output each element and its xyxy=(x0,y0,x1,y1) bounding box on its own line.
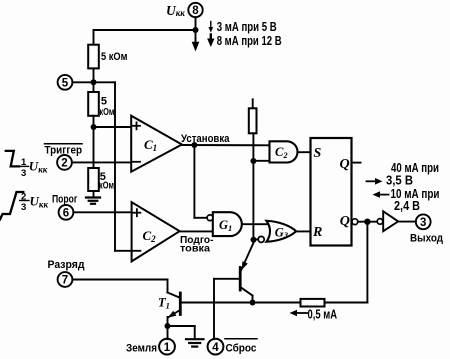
pin 7 discharge terminal xyxy=(58,272,73,287)
transistor T2 reset PNP xyxy=(240,243,253,303)
node T1 emitter junction xyxy=(165,323,171,329)
wire 2/3 reference vertical xyxy=(114,82,116,251)
value label 5 kOhm R3 xyxy=(99,171,114,192)
pin 5 control voltage terminal xyxy=(58,75,73,90)
svg-text:Земля: Земля xyxy=(126,342,157,354)
node Ustanovka junction xyxy=(191,142,197,148)
node Vcc junction xyxy=(193,27,199,33)
wire pin6 to C2 plus input xyxy=(73,211,131,213)
pin 2 trigger terminal xyxy=(57,155,72,170)
resistor R4 pull-up xyxy=(249,99,257,133)
wire G1 output to G3 input xyxy=(242,223,269,225)
op-amp comparator C2 xyxy=(132,202,180,261)
wire into G1 bubble xyxy=(194,217,207,219)
resistor R1 5 kOhm xyxy=(88,45,99,69)
svg-text:3,5 В: 3,5 В xyxy=(386,173,413,187)
pin 6 threshold terminal xyxy=(59,205,74,220)
wire pin5 to node A and on to C2 ref branch xyxy=(72,81,115,83)
svg-text:2: 2 xyxy=(61,158,67,170)
svg-text:4: 4 xyxy=(212,342,219,354)
wire to resistor R5 xyxy=(325,302,368,304)
svg-text:6: 6 xyxy=(63,208,69,220)
wire pin2 to C1 minus input xyxy=(72,161,131,163)
resistor R3 5 kOhm xyxy=(88,168,99,191)
wire emitter junction to ground xyxy=(168,326,195,339)
node at G3 lower input xyxy=(251,237,257,243)
svg-text:5 кОм: 5 кОм xyxy=(101,51,128,63)
svg-text:кОм: кОм xyxy=(99,106,114,118)
wire T2 base to pin 4 xyxy=(214,279,240,339)
transistor T1 discharge NPN xyxy=(168,293,181,339)
label Podgotovka xyxy=(180,234,214,255)
supply current annotation arrows xyxy=(207,22,214,48)
flip-flop U1 xyxy=(311,138,352,246)
label 1/3 Ukk xyxy=(20,157,48,179)
svg-text:8: 8 xyxy=(192,5,199,17)
op-amp comparator C1 xyxy=(131,116,182,172)
waveform glyph 2/3 rising edge xyxy=(0,192,23,220)
wire Q-bar branch down to base resistor xyxy=(366,222,368,303)
label Trigger overlined xyxy=(45,144,83,157)
wire node B to C1 plus input xyxy=(94,126,132,128)
svg-text:1: 1 xyxy=(164,342,171,354)
wire gate C2 lower input xyxy=(253,160,269,162)
svg-text:Сброс: Сброс xyxy=(226,342,257,354)
svg-text:2,4 В: 2,4 В xyxy=(394,199,420,213)
node at gate C2 lower input xyxy=(250,158,256,164)
gate C2 AND before S input xyxy=(270,141,298,162)
wire Q output stub xyxy=(352,162,361,164)
wire gate C2 output to S xyxy=(298,151,311,153)
svg-text:Порог: Порог xyxy=(52,194,78,206)
svg-text:кОм: кОм xyxy=(99,179,114,191)
svg-text:Выход: Выход xyxy=(410,232,443,244)
wire into G3 bubble xyxy=(254,238,259,240)
label 2/3 Ukk xyxy=(20,191,49,213)
label 40 mA at 3.5 V xyxy=(367,161,440,187)
node A 2/3 Ukk junction xyxy=(91,79,97,85)
value label 5 kOhm R2 xyxy=(99,96,114,118)
svg-text:Разряд: Разряд xyxy=(48,259,85,271)
svg-text:5: 5 xyxy=(62,78,69,90)
svg-text:7: 7 xyxy=(62,275,68,287)
wire Ustanovka net C1 output xyxy=(182,144,270,146)
ground near pin 1 xyxy=(186,339,204,346)
svg-text:R: R xyxy=(312,225,322,240)
svg-text:Установка: Установка xyxy=(181,133,230,145)
wire Ustanovka branch down xyxy=(193,145,195,218)
svg-text:Q: Q xyxy=(340,157,350,172)
label Sbros overlined xyxy=(225,339,257,355)
wire Vcc rail horizontal xyxy=(94,29,196,31)
inverter output buffer xyxy=(377,211,398,231)
wire R4 down to gate and G3 xyxy=(252,133,254,239)
wire G3 output to R xyxy=(296,230,310,232)
gate G1 AND with inverted input xyxy=(207,212,242,236)
ground under R3 xyxy=(86,191,100,204)
wire 2/3 reference into C2 inverting input xyxy=(115,250,132,252)
gate G3 OR with inverted input xyxy=(258,221,296,243)
waveform glyph 1/3 falling edge xyxy=(6,151,19,167)
wire Vcc rail down to R1 xyxy=(93,30,95,45)
bubble Q-bar output xyxy=(352,219,358,225)
wire Podgotovka net C2 output to G1 xyxy=(180,230,213,232)
svg-text:3 мА при 5 В: 3 мА при 5 В xyxy=(217,19,277,34)
svg-text:3: 3 xyxy=(420,217,426,229)
svg-text:Q: Q xyxy=(340,214,350,229)
svg-text:0,5 мА: 0,5 мА xyxy=(308,308,338,322)
node B 1/3 Ukk junction xyxy=(91,124,97,130)
pin 3 output terminal xyxy=(416,214,431,229)
wire inverter to pin 3 xyxy=(398,221,416,223)
wire R1 to R2 through node A xyxy=(93,68,95,92)
pin 1 ground terminal xyxy=(159,339,175,355)
node T2 collector junction xyxy=(250,300,256,306)
node Q-bar junction xyxy=(364,219,370,225)
svg-text:S: S xyxy=(314,146,322,161)
label 0.5 mA with arrow xyxy=(290,308,338,322)
wire T1 base line xyxy=(181,302,301,304)
svg-text:8 мА при 12 В: 8 мА при 12 В xyxy=(217,33,282,48)
wire pin7 to T1 collector xyxy=(72,280,180,298)
wire Q-bar to inverter xyxy=(358,221,377,223)
svg-text:3: 3 xyxy=(21,202,26,213)
current arrow at Vcc node xyxy=(192,33,200,52)
pin 8 Ukk supply terminal xyxy=(188,3,202,17)
resistor R2 5 kOhm xyxy=(88,92,99,116)
svg-text:товка: товка xyxy=(180,242,210,254)
pin 4 reset terminal xyxy=(208,339,224,355)
wire R2 to R3 through node B xyxy=(93,116,95,168)
svg-text:3: 3 xyxy=(21,168,26,179)
wire pin8 to Vcc rail xyxy=(195,17,197,30)
resistor R5 base 0.5 mA xyxy=(301,299,325,307)
label 10 mA at 2.4 V xyxy=(373,187,440,213)
